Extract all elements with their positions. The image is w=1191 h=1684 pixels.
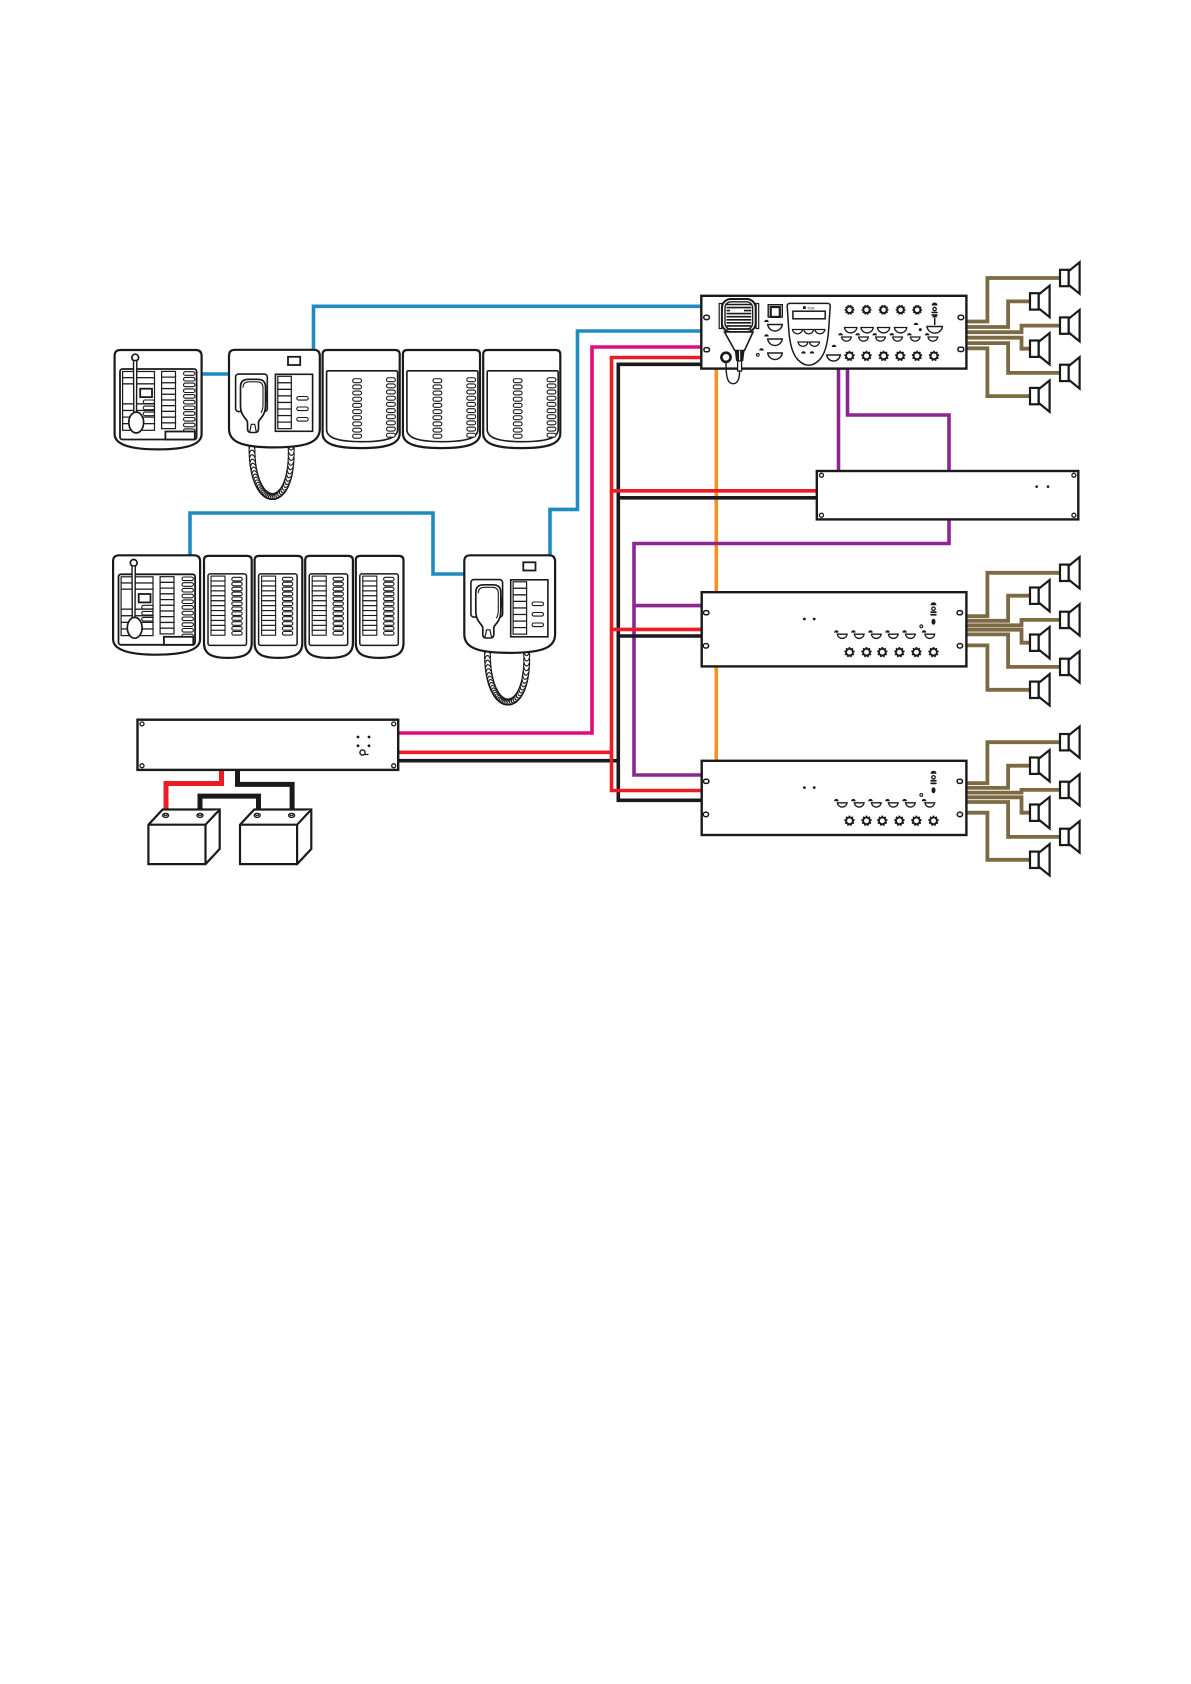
- wire red battery: power supply to battery 1: [166, 768, 222, 814]
- speaker SP3-1: [1060, 727, 1080, 758]
- fire microphone panel FM2: [113, 555, 200, 654]
- speaker SP2-4: [1030, 627, 1050, 658]
- hand microphone of U1: [719, 304, 722, 329]
- expansion keypad KP2-3: [305, 556, 353, 658]
- wire speaker 3-3: [965, 790, 1061, 793]
- wire black branch to power amplifier 1: [618, 634, 702, 638]
- speaker SP1-1: [1060, 262, 1080, 293]
- wire speaker 2-6: [965, 645, 1031, 689]
- wire speaker 2-2: [965, 596, 1031, 621]
- speaker SP1-2: [1030, 286, 1050, 317]
- monitor speaker button: [768, 305, 782, 317]
- selector buttons row: [845, 328, 857, 333]
- wire blue 4: fire mic panel 2 to remote mic 2 left: [190, 513, 465, 574]
- wire speaker 3-6: [965, 813, 1031, 860]
- wire purple 4: branch to power amplifier 1: [634, 604, 702, 608]
- speaker SP3-4: [1030, 797, 1050, 828]
- speaker SP1-3: [1060, 310, 1080, 341]
- wire speaker 1-1: [965, 278, 1061, 322]
- speaker SP2-2: [1030, 580, 1050, 611]
- wire orange: main unit to power amplifier 2: [714, 368, 718, 762]
- wire purple 3: router unit bottom to power amplifier 2: [634, 519, 949, 775]
- wire speaker 1-3: [965, 326, 1061, 333]
- speaker SP2-6: [1030, 674, 1050, 705]
- remote microphone RM2: [464, 555, 555, 653]
- expansion keypad KP1-2: [403, 350, 480, 448]
- speaker SP1-6: [1030, 380, 1050, 411]
- output volume knobs row: [844, 351, 854, 361]
- talk buttons: [768, 325, 783, 331]
- remote microphone RM1 coiled cord: [249, 428, 295, 500]
- svg-text:TOA: TOA: [807, 306, 815, 310]
- wire red branch to power amplifier 1: [612, 628, 703, 632]
- power amplifier PA1: [702, 592, 967, 666]
- battery B1: [148, 810, 219, 865]
- wire black branch to router unit: [618, 496, 817, 500]
- wire black battery: power supply to battery 2: [238, 768, 293, 813]
- speaker SP2-1: [1060, 557, 1080, 588]
- wire speaker 2-3: [965, 620, 1061, 625]
- wire speaker 1-5: [965, 343, 1061, 373]
- wire speaker 2-1: [965, 573, 1061, 616]
- fire microphone panel FM1: [115, 350, 202, 449]
- wire magenta: main unit to power supply unit: [398, 347, 702, 733]
- wire speaker 3-5: [965, 802, 1061, 837]
- wire black: power supply to black trunk: [398, 759, 620, 763]
- speaker SP3-6: [1030, 844, 1050, 875]
- wire black battery link: battery 1 to battery 2: [200, 796, 259, 814]
- zone select buttons row: [838, 333, 851, 341]
- speaker SP1-5: [1060, 357, 1080, 388]
- router/control unit U2: [817, 471, 1079, 519]
- remote microphone RM1: [229, 350, 320, 448]
- expansion keypad KP2-2: [255, 556, 303, 658]
- speaker SP3-5: [1060, 821, 1080, 852]
- wire speaker 3-4: [965, 797, 1031, 812]
- wire black trunk: main unit down to power amplifier 2: [618, 364, 702, 800]
- speaker SP3-2: [1030, 750, 1050, 781]
- expansion keypad KP2-1: [204, 556, 252, 658]
- LCD console of U1: [787, 303, 830, 365]
- main PA amplifier unit U1: [701, 296, 966, 384]
- speaker SP2-3: [1060, 604, 1080, 635]
- wire speaker 1-4: [965, 338, 1031, 349]
- wire speaker 3-1: [965, 742, 1061, 783]
- wire speaker 1-2: [965, 301, 1031, 327]
- speaker SP1-4: [1030, 333, 1050, 364]
- expansion keypad KP1-3: [483, 350, 560, 448]
- wire purple 2: main unit to router unit top (via right jog): [848, 368, 950, 472]
- wire speaker 3-2: [965, 766, 1031, 788]
- wire red trunk: main unit down to power amplifier 2: [612, 358, 703, 791]
- wire purple 1: main unit to router unit top: [837, 368, 841, 472]
- vertical model marks: [931, 303, 937, 316]
- wire speaker 2-5: [965, 634, 1061, 667]
- expansion keypad KP1-1: [323, 350, 400, 448]
- speaker SP2-5: [1060, 651, 1080, 682]
- wire speaker 1-6: [965, 348, 1031, 396]
- power amplifier PA2: [702, 761, 967, 835]
- wire speaker 2-4: [965, 630, 1031, 643]
- wire blue 1: fire mic panel 1 to remote mic 1: [201, 372, 230, 376]
- power supply unit PS1: [138, 720, 399, 770]
- remote microphone RM2 coiled cord: [484, 634, 530, 706]
- wire red: power supply to red trunk: [398, 750, 613, 754]
- battery B2: [240, 810, 311, 865]
- input volume knobs row: [845, 305, 855, 314]
- wire blue 3: main unit to remote mic 2 top: [550, 331, 702, 556]
- wire red branch to router unit: [612, 489, 818, 493]
- wire blue 2: remote mic 1 to main unit: [314, 306, 703, 350]
- speaker SP3-3: [1060, 774, 1080, 805]
- expansion keypad KP2-4: [356, 556, 404, 658]
